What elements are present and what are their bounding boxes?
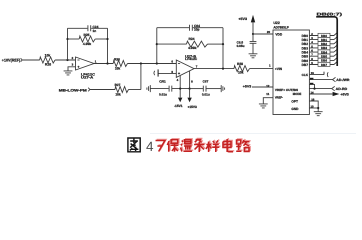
wire feedback top right segment: [91, 27, 107, 29]
resistor R27: [115, 87, 129, 93]
caption red character 保: [168, 139, 179, 151]
svg-text:+5V3: +5V3: [238, 17, 247, 21]
svg-text:0.05u: 0.05u: [237, 44, 245, 48]
svg-text:0.01u: 0.01u: [159, 92, 167, 96]
node summing junction A: [66, 59, 68, 61]
wire feedback2 top left segment: [157, 27, 189, 29]
wire C27 to ground: [206, 88, 221, 90]
wire DB2 to net label: [309, 43, 334, 45]
svg-text:10k: 10k: [45, 53, 51, 57]
bus entry DB4: [334, 49, 337, 52]
capacitor C26: [169, 86, 172, 92]
capacitor C27: [203, 86, 206, 92]
wire to AD-RD flag: [309, 88, 331, 90]
bus entry DB1: [334, 37, 337, 40]
power -15V3 arrow: [189, 89, 191, 98]
node feedback-resistor right junction: [106, 38, 108, 40]
svg-text:+15V3: +15V3: [188, 105, 198, 109]
ground at VREF-: [259, 104, 268, 108]
svg-text:R25: R25: [83, 33, 89, 37]
caption character 图: [128, 138, 140, 152]
wire R27 to junction: [129, 89, 141, 91]
wire CLK pin: [309, 72, 324, 75]
wire op1 non-inverting input: [68, 67, 76, 71]
no-connect mark: [324, 72, 328, 77]
pin number row b: [310, 78, 313, 80]
caption red character 电: [224, 138, 234, 151]
bus entry DB0: [334, 33, 337, 36]
ground right of C27: [221, 85, 224, 92]
caption red character 温: [182, 139, 194, 151]
flag AD-RD: [332, 86, 335, 90]
node VDD junction: [252, 33, 254, 35]
bus entry DB2: [334, 41, 337, 44]
caption text 4: [146, 139, 154, 154]
power -15V1 arrow: [179, 89, 181, 98]
svg-text:10k: 10k: [115, 66, 121, 70]
svg-text:AD-/WR: AD-/WR: [336, 78, 350, 82]
wire op1 output: [94, 63, 113, 65]
wire to VDD pin: [253, 33, 273, 35]
wire +5V3 to VREF+: [252, 86, 273, 88]
svg-text:+5V3: +5V3: [243, 85, 252, 89]
wire feedback top left segment: [68, 27, 88, 29]
ground under C65: [249, 54, 258, 58]
bus entry DB6: [334, 58, 337, 61]
wire R25 left lead: [68, 38, 80, 40]
wire feedback right vertical: [107, 28, 109, 63]
svg-text:R26: R26: [45, 63, 51, 67]
power +5V3 arrow: [251, 15, 255, 23]
svg-text:10p: 10p: [194, 28, 200, 32]
svg-text:R24: R24: [188, 37, 194, 41]
IC U22 AD7893LP box: [273, 30, 309, 115]
svg-text:R30: R30: [114, 58, 120, 62]
svg-text:R27: R27: [115, 83, 121, 87]
wire DB3 to net label: [309, 47, 334, 49]
svg-text:4: 4: [146, 139, 154, 154]
net label DB6: [318, 58, 330, 62]
wire OPT pin: [309, 101, 318, 112]
svg-text:20: 20: [267, 30, 271, 34]
wire op2 non-inverting input: [158, 72, 176, 74]
node summing junction B1: [140, 62, 142, 64]
wire DB0 to net label: [309, 35, 334, 37]
svg-text:AD7893LP: AD7893LP: [273, 25, 289, 29]
svg-text:GND: GND: [291, 107, 299, 111]
net label DB3: [318, 46, 330, 50]
wire MODE pin: [309, 93, 332, 95]
svg-text:DB7: DB7: [321, 63, 327, 67]
wire R28 to ADC +VIN: [250, 68, 274, 70]
wire DB1 to net label: [309, 39, 334, 41]
wire GND pin: [309, 107, 318, 109]
svg-text:C/61: C/61: [159, 80, 166, 84]
wire junction to C27: [190, 88, 203, 90]
svg-text:+10V(REF): +10V(REF): [2, 57, 21, 62]
svg-text:-15V1: -15V1: [174, 104, 183, 108]
svg-text:CLK: CLK: [302, 73, 309, 77]
wire feedback2 left vertical: [156, 28, 158, 64]
op-amp U27:B LF412C: [176, 60, 194, 77]
net label DB7: [318, 62, 330, 66]
ground at ADC GND: [314, 112, 323, 116]
caption red character 路: [237, 139, 250, 151]
wire op2 output: [194, 68, 234, 70]
net label DB2: [318, 42, 330, 46]
bus entry DB5: [334, 53, 337, 56]
capacitor at op2 + input: [157, 69, 159, 76]
node feedback-resistor left junction: [66, 38, 68, 40]
node summing junction B2: [156, 62, 158, 64]
svg-text:11: 11: [266, 92, 269, 96]
wire gnd to C26: [150, 88, 169, 90]
wire short pin row c: [309, 84, 314, 88]
net label DB5: [318, 54, 330, 58]
svg-text:OPT: OPT: [291, 100, 298, 104]
svg-text:DB7: DB7: [302, 63, 309, 67]
wire DB4 to net label: [309, 51, 334, 53]
svg-text:AD-RD: AD-RD: [336, 87, 348, 91]
resistor R28: [234, 66, 250, 72]
bus entry DB3: [334, 45, 337, 48]
bus entry DB7: [334, 62, 337, 65]
wire feedback left vertical: [67, 28, 69, 60]
wire vertical from lower input: [140, 64, 142, 90]
svg-text:10k: 10k: [115, 92, 121, 96]
svg-text:MB-LOW-PM: MB-LOW-PM: [59, 88, 87, 92]
svg-text:12: 12: [266, 84, 270, 88]
net label DB4: [318, 50, 330, 54]
caption red character 采: [195, 139, 205, 152]
svg-text:10k: 10k: [238, 71, 244, 75]
node op2 output junction: [222, 68, 224, 70]
wire DB7 to net label: [309, 64, 334, 66]
resistor R25: [79, 36, 95, 42]
svg-text:C67: C67: [203, 80, 209, 84]
resistor R26: [40, 57, 55, 63]
node op1 output junction: [106, 62, 108, 64]
svg-text:0.01u: 0.01u: [202, 92, 210, 96]
node decoupling junction 2: [189, 88, 191, 90]
svg-text:U27-A: U27-A: [81, 76, 94, 80]
capacitor C24: [88, 25, 91, 31]
node feedback2 right junction: [222, 43, 224, 45]
flag AD-/WR: [333, 77, 336, 81]
svg-text:+5V3: +5V3: [340, 93, 349, 97]
wire R24 right lead: [208, 43, 224, 45]
wire input to R26: [22, 59, 40, 61]
capacitor C64: [190, 25, 193, 31]
schematic bottom edge: [150, 133, 356, 135]
wire VREF- to ground: [263, 98, 273, 104]
svg-text:DB(0:7): DB(0:7): [317, 12, 344, 17]
resistor R24: [187, 41, 208, 47]
svg-text:+VIN: +VIN: [275, 67, 283, 71]
wire feedback2 top right segment: [193, 27, 223, 29]
net label DB0: [318, 33, 330, 37]
svg-text:LF412C: LF412C: [185, 57, 198, 61]
caption red character 7: [157, 140, 166, 151]
wire to AD-/WR flag: [309, 79, 332, 81]
ground left of C26: [147, 85, 150, 92]
pin number row c: [310, 83, 313, 85]
svg-text:4.99k: 4.99k: [188, 46, 196, 50]
wire MB input to R27: [90, 89, 115, 91]
svg-text:MODE: MODE: [293, 92, 302, 96]
wire R30 to op2 inverting input: [128, 63, 177, 65]
wire DB6 to net label: [309, 59, 334, 61]
node GND join: [317, 107, 319, 109]
node decoupling junction 1: [179, 88, 181, 90]
net label DB1: [318, 37, 330, 41]
wire C26 to junction: [172, 88, 190, 90]
wire R25 right lead: [95, 38, 107, 40]
svg-text:VREF-: VREF-: [275, 95, 283, 99]
ground at op1 + input: [64, 71, 73, 75]
wire feedback2 right vertical: [222, 28, 224, 69]
wire DB5 to net label: [309, 55, 334, 57]
svg-text:VDD: VDD: [275, 33, 282, 37]
resistor R30: [113, 61, 127, 67]
op-amp U27:A LF412C: [76, 57, 95, 70]
svg-text:R28: R28: [237, 62, 243, 66]
wire op2 V+ pin stub: [179, 76, 181, 89]
capacitor C65: [250, 34, 257, 54]
wire R24 left lead: [157, 43, 187, 45]
node feedback2 left junction: [156, 43, 158, 45]
bus DB(0:7): [316, 17, 337, 66]
wire R26 to op-amp U27-A inverting input: [55, 59, 75, 61]
svg-text:4.99k: 4.99k: [83, 42, 91, 46]
caption red character 样: [207, 140, 220, 152]
power arrow right +5V3: [333, 92, 340, 96]
wire op2 V- pin stub: [189, 71, 191, 89]
node pin join: [313, 88, 315, 90]
svg-text:1n: 1n: [93, 29, 97, 33]
